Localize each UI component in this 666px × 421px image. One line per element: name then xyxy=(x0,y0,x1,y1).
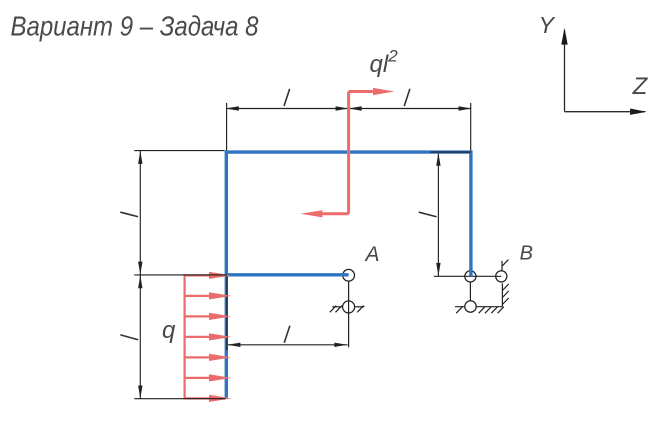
member column left + beam top + column right xyxy=(226,152,471,398)
load arrow shaft 4 xyxy=(185,336,210,338)
label l top-right (stroke glyph) xyxy=(404,89,409,105)
dimension line right (vertical, x=438.4) xyxy=(437,153,439,277)
Y axis arrowhead xyxy=(561,28,567,45)
support A hatch left 1 xyxy=(330,306,336,313)
Z axis line xyxy=(565,111,646,113)
support A rod (through A2) xyxy=(348,281,350,347)
arrowhead bottom dim right (pointing right) xyxy=(334,343,347,347)
support B hatch wall 2 xyxy=(502,291,508,298)
svg-text:B: B xyxy=(520,243,533,265)
svg-text:Y: Y xyxy=(539,12,556,38)
moment ql² couple (red) xyxy=(321,92,375,214)
arrowhead bottom dim left (pointing left) xyxy=(227,343,240,347)
hinge circle A1 at member end xyxy=(343,269,355,281)
Z axis arrowhead xyxy=(630,109,647,115)
support B hatch ground 3 xyxy=(485,307,491,314)
arrowhead right dim top (pointing up) xyxy=(436,153,440,166)
svg-text:Вариант 9 – Задача 8: Вариант 9 – Задача 8 xyxy=(11,11,259,42)
support A ground bar right xyxy=(355,306,365,308)
arrowhead left dim bottom (pointing down) xyxy=(138,386,142,399)
load arrow shaft 6 xyxy=(185,377,210,379)
load arrowhead 7 xyxy=(209,395,231,402)
member lower horizontal to A xyxy=(226,273,348,276)
load arrowhead 4 xyxy=(209,333,231,340)
load arrowhead 1 xyxy=(209,272,231,279)
svg-text:Z: Z xyxy=(632,73,649,100)
arrowhead top dim right (tip x=471.5 pointing right) xyxy=(459,106,472,110)
support B ground line xyxy=(455,306,502,308)
label l left-upper rotated (stroke glyph) xyxy=(121,212,137,216)
dimension line left (vertical, x=140.3) xyxy=(139,151,141,399)
moment vertical line xyxy=(347,92,350,214)
extension line top-center (x=348.6) xyxy=(348,103,350,151)
load arrow shaft 1 xyxy=(184,274,210,276)
support B hatch ground corner xyxy=(498,307,504,314)
support B hatch wall 3 xyxy=(502,298,508,305)
load arrow shaft 2 xyxy=(185,295,210,297)
dimension line top (horizontal, y=108.5) xyxy=(227,108,471,110)
moment top arm xyxy=(349,90,375,93)
support B hatch ground 1 xyxy=(456,307,462,314)
moment arrowhead top (pointing right) xyxy=(373,88,395,95)
hinge circle B2 wall pivot xyxy=(496,271,507,282)
support A hatch left 2 xyxy=(336,306,342,313)
label l top-left (stroke glyph) xyxy=(284,89,289,105)
moment bottom arm xyxy=(321,212,349,215)
load arrowhead 3 xyxy=(209,313,231,320)
dimension line bottom (horizontal, y=344.8) xyxy=(227,344,348,346)
arrowhead top dim center-right (tip x=348.6 pointing left) xyxy=(349,106,362,110)
support B hatch ground 4 xyxy=(491,307,497,314)
support B link vertical B1-B3 xyxy=(469,276,471,306)
hinge circle B1 at member end xyxy=(465,271,476,282)
axes xyxy=(565,30,646,112)
extension line bottom-dim left over column (x=226.9) xyxy=(226,277,228,351)
Y axis line xyxy=(564,30,566,112)
arrowhead top dim left (tip x=225.8 pointing left) xyxy=(226,106,239,110)
extension line left-middle over load (y=274.9) xyxy=(134,274,227,276)
hinge circle A2 ground pivot xyxy=(343,301,355,313)
load boundary line left xyxy=(184,274,186,399)
support B hatch stub xyxy=(502,260,508,266)
support B hatch wall 1 xyxy=(502,284,508,291)
arrowhead left dim middle-down (tip y=274.6) xyxy=(138,262,142,275)
load arrow shaft 7 xyxy=(184,397,210,399)
support A ground bar left xyxy=(332,306,342,308)
extension line left-bottom over load (y=398.7) xyxy=(134,398,225,400)
hinge circle B3 ground pivot xyxy=(465,301,476,312)
frame members (blue) xyxy=(226,152,471,398)
arrowhead top dim center-left (tip x=348.6 pointing right) xyxy=(336,106,349,110)
support A hatch right xyxy=(357,306,364,313)
extension line right-top over beam (y=152.1) xyxy=(430,151,471,153)
label l left-lower rotated (stroke glyph) xyxy=(121,335,138,340)
load arrowhead 6 xyxy=(209,374,231,381)
load arrowhead 2 xyxy=(209,292,231,299)
arrowhead left dim middle-up (tip y=275.2) xyxy=(138,275,142,288)
extension line top-left (x=226.6) xyxy=(226,103,228,152)
extension line B link (y=276.3 through B1 to B2) xyxy=(434,275,501,277)
support B wall line xyxy=(501,283,503,306)
extension line left-top (y=150.6) xyxy=(134,150,224,152)
load arrow shaft 3 xyxy=(185,315,210,317)
arrowhead left dim top (pointing up) xyxy=(138,151,142,164)
label l bottom-middle (stroke glyph) xyxy=(284,326,289,342)
extension line top-right (x=470.7) xyxy=(470,103,472,151)
arrowhead right dim bottom (pointing down) xyxy=(436,263,440,276)
label l right rotated (stroke glyph) xyxy=(419,212,436,216)
load arrow shaft 5 xyxy=(185,356,210,358)
svg-text:q: q xyxy=(162,317,176,344)
distributed load q (red) xyxy=(184,274,210,399)
moment arrowhead bottom (pointing left) xyxy=(301,210,323,217)
load arrowhead 5 xyxy=(209,354,231,361)
support B hatch ground 2 xyxy=(479,307,485,314)
svg-text:A: A xyxy=(363,243,379,266)
support B wall stub above xyxy=(501,261,503,271)
